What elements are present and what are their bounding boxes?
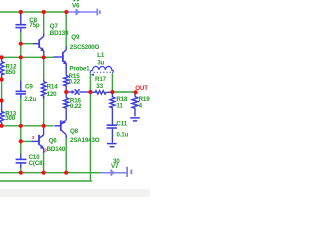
svg-text:3u: 3u — [97, 59, 104, 66]
svg-text:BD140: BD140 — [47, 146, 66, 153]
svg-text:300: 300 — [5, 115, 16, 122]
svg-text:C9: C9 — [25, 84, 33, 91]
svg-text:Q9: Q9 — [71, 34, 80, 41]
svg-text:75p: 75p — [29, 22, 40, 29]
svg-text:C11: C11 — [116, 120, 127, 127]
svg-text:Q6: Q6 — [49, 137, 58, 144]
svg-text:2SA1943O: 2SA1943O — [70, 137, 100, 144]
svg-text:850: 850 — [6, 69, 17, 76]
svg-text:R14: R14 — [47, 83, 59, 90]
svg-text:2SC5200O: 2SC5200O — [70, 44, 100, 51]
svg-text:0.1u: 0.1u — [116, 132, 128, 139]
svg-text:120: 120 — [47, 91, 58, 98]
svg-text:C(C8): C(C8) — [29, 160, 45, 167]
svg-text:V6: V6 — [72, 2, 80, 9]
svg-text:2.2u: 2.2u — [24, 96, 36, 103]
svg-text:L1: L1 — [97, 52, 105, 59]
svg-text:OUT: OUT — [135, 85, 148, 92]
svg-text:0.22: 0.22 — [69, 78, 81, 85]
svg-text:0.22: 0.22 — [70, 103, 82, 110]
svg-text:R17: R17 — [95, 76, 107, 83]
svg-text:Q8: Q8 — [70, 128, 79, 135]
svg-text:V7: V7 — [111, 163, 119, 170]
svg-text:11: 11 — [116, 102, 123, 109]
svg-text:33: 33 — [96, 83, 103, 90]
svg-text:BD139: BD139 — [50, 30, 69, 37]
svg-text:Probe1: Probe1 — [69, 66, 90, 73]
